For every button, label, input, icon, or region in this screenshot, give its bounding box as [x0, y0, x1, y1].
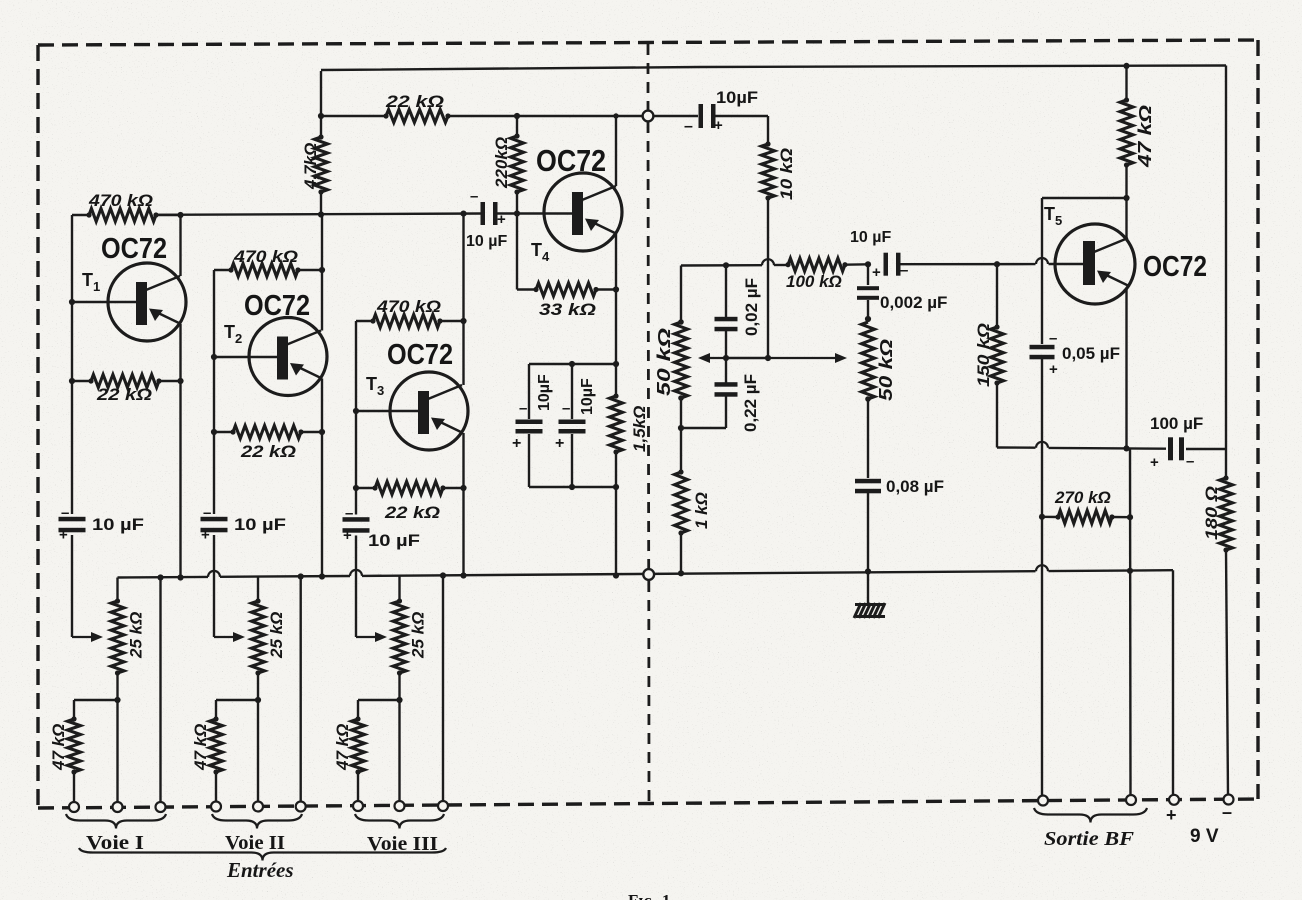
svg-text:OC72: OC72	[536, 143, 606, 178]
svg-text:1 kΩ: 1 kΩ	[692, 492, 711, 529]
brace voie 1	[66, 814, 166, 829]
label 50k treble	[876, 339, 896, 401]
label 100k	[786, 272, 842, 291]
svg-text:10 µF: 10 µF	[466, 233, 507, 250]
wire 180 to battery minus	[1226, 550, 1228, 795]
node summing output	[643, 111, 654, 122]
svg-text:OC72: OC72	[244, 290, 310, 322]
wire 470k to collector node T2	[298, 267, 325, 273]
potentiometer P 50k bass	[675, 266, 688, 401]
label 47k T5	[1135, 105, 1155, 168]
resistor R 47k input T2	[210, 716, 223, 806]
terminal input C voie 2	[296, 802, 306, 812]
transistor T1 OC72	[108, 263, 186, 341]
label Sortie BF	[1044, 828, 1135, 850]
capacitor C 10uF input T3	[343, 505, 370, 544]
resistor R 47k input T1	[68, 716, 81, 807]
svg-text:10µF: 10µF	[716, 88, 758, 107]
wire T1 base-node vertical	[71, 215, 73, 514]
svg-text:–: –	[61, 505, 69, 522]
transistor T4 OC72	[544, 173, 622, 251]
label 150k	[974, 323, 993, 387]
svg-text:–: –	[1186, 453, 1194, 470]
label 0.02uF	[742, 278, 761, 336]
svg-text:Entrées: Entrées	[226, 858, 294, 882]
capacitor C 10uF decoupling B	[555, 364, 586, 487]
wire T5 collector	[1125, 198, 1127, 238]
label 0.08uF	[886, 477, 944, 496]
svg-text:4,7kΩ: 4,7kΩ	[301, 143, 320, 190]
wiper arrow pot T1	[72, 632, 103, 642]
wire cap to wiper T2	[213, 535, 215, 637]
svg-text:+: +	[512, 435, 521, 452]
svg-text:47 kΩ: 47 kΩ	[191, 724, 210, 771]
potentiometer P 50k treble	[862, 322, 875, 402]
wire T2 emitter	[319, 379, 325, 580]
svg-text:25 kΩ: 25 kΩ	[409, 612, 428, 659]
wiper arrow pot T3	[356, 632, 387, 642]
label 100uF	[1150, 414, 1203, 433]
wire T5 emitter	[1123, 289, 1129, 452]
label 50k bass	[654, 328, 674, 396]
terminal sortie B	[1126, 795, 1136, 805]
label 22k top	[385, 92, 444, 111]
label 25k T1	[127, 612, 146, 659]
wire cap to wiper T3	[355, 536, 357, 638]
label 47k input T3	[333, 724, 352, 771]
wiper row treble arrow	[723, 353, 847, 363]
label OC72 T1	[101, 233, 167, 265]
label T5	[1044, 204, 1062, 228]
label 22k T1	[96, 385, 152, 404]
svg-text:10 µF: 10 µF	[234, 515, 286, 534]
label 22k T2	[240, 442, 296, 461]
svg-text:Sortie BF: Sortie BF	[1044, 828, 1135, 850]
wire T2 collector	[321, 270, 323, 331]
svg-text:10 kΩ: 10 kΩ	[777, 148, 796, 200]
transistor T3 OC72	[390, 372, 468, 450]
terminal input B voie 2	[253, 802, 263, 812]
svg-text:–: –	[345, 505, 353, 522]
wire right terminal line T2	[298, 573, 304, 806]
capacitor C 10uF decoupling A	[512, 364, 543, 487]
terminal input A voie 1	[69, 802, 79, 812]
wire bass pot to bottom	[678, 398, 684, 431]
svg-text:10µF: 10µF	[536, 374, 553, 411]
svg-text:+: +	[1049, 361, 1058, 378]
svg-text:–: –	[684, 118, 693, 135]
wire T4 base to 33k	[517, 214, 536, 290]
svg-text:22 kΩ: 22 kΩ	[385, 92, 444, 111]
resistor R 22k T3	[353, 482, 467, 495]
label 470k T2	[233, 247, 298, 266]
junction 0.08 bus	[865, 568, 871, 574]
wire cap to T4 base	[495, 212, 572, 214]
resistor R 470k T2	[214, 264, 301, 277]
svg-text:+: +	[714, 117, 723, 134]
label T2	[224, 322, 242, 346]
wire pot bottom junction T2	[255, 697, 261, 807]
svg-text:180 Ω: 180 Ω	[1202, 486, 1221, 540]
wire 22k to node	[448, 113, 643, 119]
wiper arrow pot T2	[214, 632, 245, 642]
resistor R 10k	[762, 141, 775, 200]
wire 470k to collector node T1	[156, 212, 184, 218]
transistor T5 OC72	[1055, 224, 1135, 304]
svg-text:47 kΩ: 47 kΩ	[49, 724, 68, 771]
svg-text:Voie I: Voie I	[86, 832, 144, 854]
svg-text:270 kΩ: 270 kΩ	[1054, 488, 1111, 507]
svg-text:+: +	[1166, 805, 1177, 825]
svg-text:0,02 µF: 0,02 µF	[742, 278, 761, 336]
svg-text:10 µF: 10 µF	[850, 229, 891, 246]
wire right terminal line T3	[440, 572, 446, 806]
wire 0.05 down to output terminal	[1039, 359, 1045, 795]
svg-text:22 kΩ: 22 kΩ	[240, 442, 296, 461]
resistor R 470k T1	[72, 209, 159, 222]
label 470k T1	[88, 191, 153, 210]
border dashed outline	[38, 40, 1258, 808]
resistor R 1k	[675, 469, 688, 535]
svg-text:9 V: 9 V	[1190, 826, 1219, 847]
capacitor C 10uF T4 coupling	[470, 188, 506, 228]
svg-text:10 µF: 10 µF	[92, 515, 144, 534]
terminal battery minus	[1224, 795, 1234, 805]
label T3	[366, 374, 384, 398]
label T4	[531, 240, 550, 264]
wire decoupling box bottom	[529, 484, 619, 490]
label OC72 T5	[1143, 251, 1207, 283]
svg-text:+: +	[872, 264, 881, 281]
node bus crossing	[643, 569, 654, 580]
label OC72 T3	[387, 339, 453, 371]
svg-text:OC72: OC72	[101, 233, 167, 265]
brace sortie	[1034, 808, 1147, 823]
label 33k	[539, 300, 596, 319]
svg-text:22 kΩ: 22 kΩ	[96, 385, 152, 404]
transistor T2 OC72	[249, 318, 327, 396]
label 4.7k	[301, 143, 320, 190]
svg-text:25 kΩ: 25 kΩ	[127, 612, 146, 659]
resistor R 22k T1	[69, 375, 184, 388]
svg-text:100 µF: 100 µF	[1150, 414, 1203, 433]
svg-text:0,22 µF: 0,22 µF	[741, 374, 760, 432]
svg-text:0,002 µF: 0,002 µF	[880, 293, 947, 312]
svg-text:+: +	[59, 527, 68, 544]
label OC72 T4	[536, 143, 606, 178]
svg-text:50 kΩ: 50 kΩ	[876, 339, 896, 401]
wire 1k to bus	[678, 533, 684, 576]
label OC72 T2	[244, 290, 310, 322]
wire emitter chain lower	[613, 452, 619, 579]
wire T3 collector	[462, 321, 464, 385]
wire emitter chain upper	[615, 290, 617, 397]
label 10uF input T3	[368, 531, 420, 550]
label T1	[82, 270, 100, 294]
label 10uF output	[850, 229, 891, 246]
svg-text:10µF: 10µF	[579, 378, 596, 415]
resistor R 47k T5	[1120, 63, 1133, 198]
label 180	[1202, 486, 1221, 540]
label 25k T3	[409, 612, 428, 659]
wire T5 collector box	[1042, 195, 1130, 344]
hop output row	[1036, 442, 1129, 449]
wire T2 base-node vertical	[213, 270, 215, 514]
ground symbol	[854, 603, 885, 618]
wire T2 collector feed	[321, 214, 323, 270]
svg-text:47 kΩ: 47 kΩ	[333, 724, 352, 771]
wire T1 collector	[179, 215, 181, 276]
svg-text:–: –	[470, 188, 478, 205]
resistor R 1.5k	[610, 393, 623, 454]
svg-text:+: +	[1150, 454, 1159, 471]
wire T3 emitter	[460, 433, 466, 579]
svg-text:470 kΩ: 470 kΩ	[88, 191, 153, 210]
resistor R 4.7k	[315, 134, 328, 217]
svg-text:–: –	[203, 505, 211, 522]
terminal battery plus	[1169, 795, 1179, 805]
svg-text:22 kΩ: 22 kΩ	[384, 503, 440, 522]
label 470k T3	[376, 297, 441, 316]
capacitor C 10uF interstage	[654, 104, 723, 135]
svg-text:–: –	[1049, 330, 1057, 347]
wire 47k top T1	[74, 700, 118, 719]
brace voie 2	[212, 814, 302, 829]
label 10uF decoupling B	[579, 378, 596, 415]
svg-text:–: –	[562, 400, 570, 417]
brace voie 3	[355, 814, 444, 829]
svg-text:100 kΩ: 100 kΩ	[786, 272, 842, 291]
wire 100uF to supply line	[1186, 66, 1226, 479]
capacitor C 0.05uF	[1030, 330, 1059, 378]
label 10uF decoupling A	[536, 374, 553, 411]
label Entrees	[226, 858, 294, 882]
resistor R 22k top	[383, 110, 450, 123]
label Voie I	[86, 832, 144, 854]
terminal sortie A	[1038, 796, 1048, 806]
label 10uF input T2	[234, 515, 286, 534]
capacitor C 0.08uF	[855, 479, 881, 604]
label Voie III	[367, 833, 438, 855]
label 10k	[777, 148, 796, 200]
resistor R 47k input T3	[352, 716, 365, 806]
wire T1 base	[69, 299, 136, 305]
terminal input B voie 1	[113, 802, 123, 812]
wire 22k top row	[321, 115, 386, 117]
resistor R 180	[1220, 475, 1233, 552]
wire T3 collector feed	[460, 211, 466, 322]
brace entrees	[79, 848, 446, 861]
wire tone top row	[681, 259, 788, 268]
svg-text:–: –	[1222, 802, 1232, 822]
wire 47k top T3	[358, 700, 400, 719]
svg-text:10 µF: 10 µF	[368, 531, 420, 550]
wire emitter bus	[118, 565, 1174, 577]
wire tone bottom row	[681, 427, 726, 429]
label minus	[1222, 802, 1232, 822]
label Voie II	[225, 832, 285, 854]
capacitor C 10uF input T1	[59, 505, 86, 544]
label 0.002uF	[880, 293, 947, 312]
label 10uF interstage	[716, 88, 758, 107]
svg-text:0,05 µF: 0,05 µF	[1062, 344, 1120, 363]
terminal input C voie 1	[156, 802, 166, 812]
label 10uF input T1	[92, 515, 144, 534]
svg-text:1,5kΩ: 1,5kΩ	[630, 406, 649, 452]
svg-text:50 kΩ: 50 kΩ	[654, 328, 674, 396]
wire negative supply top rail	[321, 66, 1226, 71]
label 47k input T1	[49, 724, 68, 771]
wire 47k top T2	[216, 700, 258, 719]
wire bass node to 1k	[680, 428, 682, 472]
svg-text:47 kΩ: 47 kΩ	[1135, 105, 1155, 168]
label 47k input T2	[191, 724, 210, 771]
label plus	[1166, 805, 1177, 825]
wire pot bottom junction T3	[396, 697, 402, 806]
svg-text:33 kΩ: 33 kΩ	[539, 300, 596, 319]
wire collector feed 4.7k line	[318, 71, 324, 137]
wire cap to 10k	[713, 116, 768, 144]
wire treble pot to 0.08	[867, 399, 869, 478]
dashed section divider	[648, 44, 649, 803]
capacitor C 10uF output coupling	[872, 253, 908, 281]
wire sortie right line	[1127, 448, 1133, 795]
capacitor C 100uF	[1150, 437, 1194, 471]
wire 470k to collector node T3	[440, 318, 467, 324]
label 22k T3	[384, 503, 440, 522]
capacitor C 0.002uF	[857, 264, 879, 322]
label 9V	[1190, 826, 1219, 847]
label 270k	[1054, 488, 1111, 507]
svg-text:+: +	[555, 435, 564, 452]
wire emitter to 100uF	[1127, 447, 1167, 450]
label Fig 1	[628, 891, 675, 900]
resistor R 220k	[511, 116, 524, 217]
svg-text:OC72: OC72	[1143, 251, 1207, 283]
wire T3 base	[353, 408, 418, 414]
wire T2 base	[211, 354, 277, 360]
svg-text:–: –	[519, 400, 527, 417]
terminal input C voie 3	[438, 801, 448, 811]
potentiometer P 25k T2	[252, 577, 265, 701]
svg-text:+: +	[343, 527, 352, 544]
wire bus to battery plus	[1172, 570, 1174, 795]
terminal input B voie 3	[395, 801, 405, 811]
label 1.5k	[630, 406, 649, 452]
wire right terminal line T1	[157, 574, 163, 807]
svg-text:470 kΩ: 470 kΩ	[376, 297, 441, 316]
wire T4 collector	[615, 116, 617, 186]
label 220k	[492, 137, 511, 189]
wire T3 base-node vertical	[355, 321, 357, 515]
svg-text:+: +	[201, 527, 210, 544]
wire cap to wiper T1	[71, 535, 73, 637]
label 1k	[692, 492, 711, 529]
capacitor C 0.02uF	[715, 265, 738, 358]
svg-text:Voie II: Voie II	[225, 832, 285, 854]
resistor R 150k	[991, 264, 1004, 385]
svg-text:150 kΩ: 150 kΩ	[974, 323, 993, 387]
terminal input A voie 3	[353, 801, 363, 811]
wire summing row	[156, 214, 483, 215]
wire T1 emitter	[177, 324, 183, 581]
capacitor C 0.22uF	[715, 358, 738, 428]
svg-text:220kΩ: 220kΩ	[492, 137, 511, 189]
svg-text:25 kΩ: 25 kΩ	[267, 612, 286, 659]
potentiometer P 25k T1	[111, 578, 124, 701]
wire decoupling box top	[529, 361, 619, 367]
capacitor C 10uF input T2	[201, 505, 228, 544]
resistor R 100k	[785, 258, 871, 271]
wire to T5 base	[898, 258, 1084, 267]
wiper row bass arrow	[698, 353, 726, 363]
label 10uF T4	[466, 233, 507, 250]
label 25k T2	[267, 612, 286, 659]
label 0.05uF	[1062, 344, 1120, 363]
svg-text:OC72: OC72	[387, 339, 453, 371]
svg-text:0,08 µF: 0,08 µF	[886, 477, 944, 496]
resistor R 470k T3	[356, 315, 443, 328]
svg-text:Fɪɢ. 1.: Fɪɢ. 1.	[628, 891, 675, 900]
resistor R 270k	[1042, 511, 1133, 524]
potentiometer P 25k T3	[393, 576, 406, 701]
resistor R 22k T2	[211, 426, 325, 439]
wire T4 emitter	[615, 234, 617, 290]
resistor R 33k	[533, 283, 619, 296]
wire 150k to output row	[997, 383, 1036, 448]
label 0.22uF	[741, 374, 760, 432]
wire pot bottom junction T1	[114, 697, 120, 807]
wire 10k to wiper row	[765, 198, 771, 361]
terminal input A voie 2	[211, 802, 221, 812]
svg-text:470 kΩ: 470 kΩ	[233, 247, 298, 266]
